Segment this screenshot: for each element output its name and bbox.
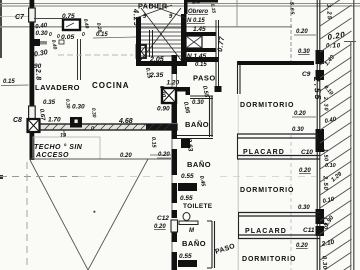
- faint line near C7: [0, 16, 29, 18]
- stair bottom wall: [136, 61, 187, 66]
- svg-text:0.30: 0.30: [298, 49, 310, 55]
- svg-text:LAVADERO: LAVADERO: [35, 83, 80, 92]
- svg-text:90: 90: [34, 63, 42, 70]
- svg-text:DORMITORIO: DORMITORIO: [240, 102, 294, 109]
- top border line 1: [0, 3, 360, 5]
- arrow dim left: [1, 84, 29, 87]
- vestibule right thin wall: [215, 20, 217, 88]
- svg-text:1.70: 1.70: [48, 117, 61, 124]
- faint kitchen line y55: [58, 54, 133, 56]
- scanner edge strip left: [0, 0, 2, 58]
- svg-text:0.30: 0.30: [298, 205, 310, 211]
- svg-text:N 0.15: N 0.15: [187, 18, 205, 24]
- wall: left exterior: [30, 0, 35, 160]
- svg-text:1.50: 1.50: [322, 149, 329, 162]
- column right 3b: [316, 226, 325, 236]
- dashed vertical left: [26, 162, 28, 270]
- svg-text:0.15: 0.15: [96, 32, 108, 38]
- svg-text:0.20: 0.20: [294, 111, 306, 117]
- svg-text:0.20: 0.20: [120, 153, 132, 159]
- stair column box X: [137, 45, 147, 58]
- svg-text:0.55: 0.55: [180, 195, 193, 202]
- shelf line to counter: [34, 18, 63, 20]
- vestibule wall a: [186, 32, 216, 36]
- dashed horizontal continuation: [78, 176, 165, 178]
- svg-text:0.15: 0.15: [150, 137, 157, 149]
- bano1 column box X: [162, 88, 176, 103]
- bano1 L wall: [177, 87, 190, 95]
- techo box outline: [33, 137, 100, 159]
- bano1 right wall: [209, 96, 211, 137]
- window C7 jamb: [29, 8, 36, 22]
- svg-text:BAÑO: BAÑO: [187, 160, 211, 169]
- central wall thin joints: [171, 74, 173, 87]
- svg-text:0.20: 0.20: [154, 224, 166, 230]
- left edge tick: [0, 175, 3, 179]
- counter appliance box: [63, 20, 80, 31]
- toilet bowl: [183, 213, 190, 221]
- top border line 2: [0, 5, 360, 7]
- svg-text:BAÑO: BAÑO: [182, 239, 206, 248]
- dashed line x291 lower: [290, 135, 292, 270]
- column right 1: [316, 50, 325, 64]
- svg-text:C8: C8: [13, 117, 22, 124]
- svg-text:BAÑO: BAÑO: [185, 120, 209, 129]
- placard2 top wall: [238, 212, 320, 214]
- column right 1b: [316, 70, 325, 80]
- svg-text:0.10: 0.10: [325, 163, 336, 169]
- wall below vestibule: [186, 57, 218, 62]
- party hatching: [320, 0, 352, 270]
- column box with X left: [28, 119, 40, 132]
- svg-text:2.50: 2.50: [321, 175, 328, 191]
- counter inner mark: [66, 23, 74, 27]
- paso2 wall bracket: [207, 221, 215, 268]
- svg-text:0.15: 0.15: [195, 62, 207, 68]
- central wall segment B: [172, 87, 178, 123]
- svg-text:0: 0: [91, 126, 94, 132]
- stair left wall: [136, 17, 141, 66]
- column black mid: [70, 117, 82, 128]
- central wall segment F: [172, 210, 178, 218]
- techo V left: [30, 160, 88, 270]
- vanity bano2: [178, 183, 197, 191]
- svg-text:0.30: 0.30: [192, 100, 204, 106]
- wall: right party wall double line: [316, 0, 318, 270]
- dimension tick line x290: [290, 0, 292, 62]
- column right 3: [316, 209, 325, 224]
- svg-text:1.0: 1.0: [192, 0, 201, 6]
- svg-text:0.30: 0.30: [292, 127, 304, 133]
- dormitorio1 left wall: [237, 61, 239, 94]
- svg-text:0.30: 0.30: [90, 108, 97, 118]
- bano1 bottom wall: [177, 135, 213, 137]
- cocina bottom wall band: [39, 124, 177, 130]
- placard2 left wall: [238, 212, 240, 239]
- svg-text:TOILETE: TOILETE: [183, 203, 213, 210]
- svg-text:PLACARD: PLACARD: [245, 228, 287, 235]
- svg-text:2.05: 2.05: [149, 57, 164, 64]
- shaft hatched box: [186, 36, 202, 48]
- cocina bottom wall hatch: [44, 124, 170, 130]
- wall band dark right end: [146, 124, 177, 131]
- svg-text:DORMITORIO: DORMITORIO: [240, 187, 294, 194]
- placard1 bottom wall: [237, 155, 320, 157]
- right boundary line: [353, 0, 355, 270]
- svg-text:1.20: 1.20: [167, 80, 180, 87]
- small square mark: [59, 40, 64, 44]
- svg-text:2.55: 2.55: [312, 76, 323, 102]
- door jamb C12: [171, 220, 178, 232]
- window C8 jamb: [29, 106, 36, 119]
- svg-text:C12: C12: [157, 215, 169, 222]
- svg-text:C11: C11: [303, 227, 315, 234]
- svg-text:0: 0: [82, 32, 85, 38]
- svg-text:TECHO ° SIN: TECHO ° SIN: [34, 143, 83, 151]
- svg-text:0.55: 0.55: [181, 173, 194, 180]
- svg-text:0.20: 0.20: [296, 243, 308, 249]
- wall cap paso right: [215, 86, 222, 92]
- stair right wall: [181, 14, 187, 66]
- fixture dark rect below bano1: [181, 139, 190, 148]
- svg-text:19: 19: [60, 133, 67, 139]
- svg-text:C7: C7: [15, 14, 25, 21]
- svg-text:0.55: 0.55: [179, 253, 192, 260]
- svg-text:PASO: PASO: [193, 74, 216, 83]
- svg-text:4.68: 4.68: [118, 118, 133, 125]
- central wall segment A: [172, 55, 178, 74]
- stair right wall top stub: [184, 0, 188, 14]
- central wall segment C: [172, 130, 178, 139]
- boundary step tick: [344, 41, 356, 43]
- vestibule wall b: [186, 48, 216, 52]
- central wall segment E: [172, 183, 178, 203]
- faint construction line x238: [237, 95, 239, 133]
- central wall segment D: [172, 149, 178, 175]
- svg-text:DORMITORIO: DORMITORIO: [242, 256, 296, 263]
- inner boundary line lower: [350, 42, 352, 270]
- svg-text:0: 0: [57, 34, 60, 40]
- stair cross diagonals: [136, 5, 186, 60]
- vertical dim line x237: [236, 0, 238, 27]
- svg-text:1.45: 1.45: [193, 26, 206, 33]
- stair direction shaft: [149, 30, 151, 57]
- column right 2: [316, 129, 325, 152]
- dashed horizontal left: [0, 176, 78, 178]
- placard1 left wall: [237, 134, 239, 159]
- dimension line y27: [0, 26, 292, 28]
- svg-text:Obrero: Obrero: [188, 9, 208, 15]
- svg-text:0.30: 0.30: [36, 30, 49, 37]
- svg-text:0.15: 0.15: [3, 79, 15, 85]
- svg-text:0.30: 0.30: [321, 256, 328, 270]
- svg-text:0.35: 0.35: [43, 99, 56, 106]
- sink drain nub: [40, 41, 47, 45]
- techo top line: [30, 158, 171, 160]
- svg-text:ACCESO: ACCESO: [35, 152, 69, 159]
- svg-text:COCINA: COCINA: [92, 81, 130, 90]
- vanity bottom: [178, 260, 197, 267]
- stair treads: [141, 24, 181, 56]
- vestibule top wall stub: [186, 0, 218, 3]
- dormitorio1 top wall: [237, 61, 314, 65]
- svg-text:0.20: 0.20: [296, 29, 308, 35]
- toilet tank: [179, 221, 198, 225]
- placard2 bottom wall: [238, 234, 320, 236]
- svg-text:0.30: 0.30: [72, 104, 85, 111]
- partition line kitchen: [77, 39, 79, 80]
- sink L shape: [31, 39, 41, 46]
- arrow below wall: [63, 130, 65, 137]
- bano1 top wall: [190, 95, 213, 97]
- svg-text:0.90: 0.90: [157, 106, 170, 113]
- svg-text:0.30: 0.30: [64, 99, 71, 109]
- techo V right: [88, 159, 148, 270]
- svg-text:0.20: 0.20: [299, 168, 311, 174]
- central wall segment F2: [172, 232, 178, 242]
- central wall segment G: [172, 252, 178, 270]
- svg-text:C9: C9: [302, 71, 311, 78]
- svg-text:0: 0: [49, 32, 52, 38]
- placard1 top wall: [237, 133, 318, 135]
